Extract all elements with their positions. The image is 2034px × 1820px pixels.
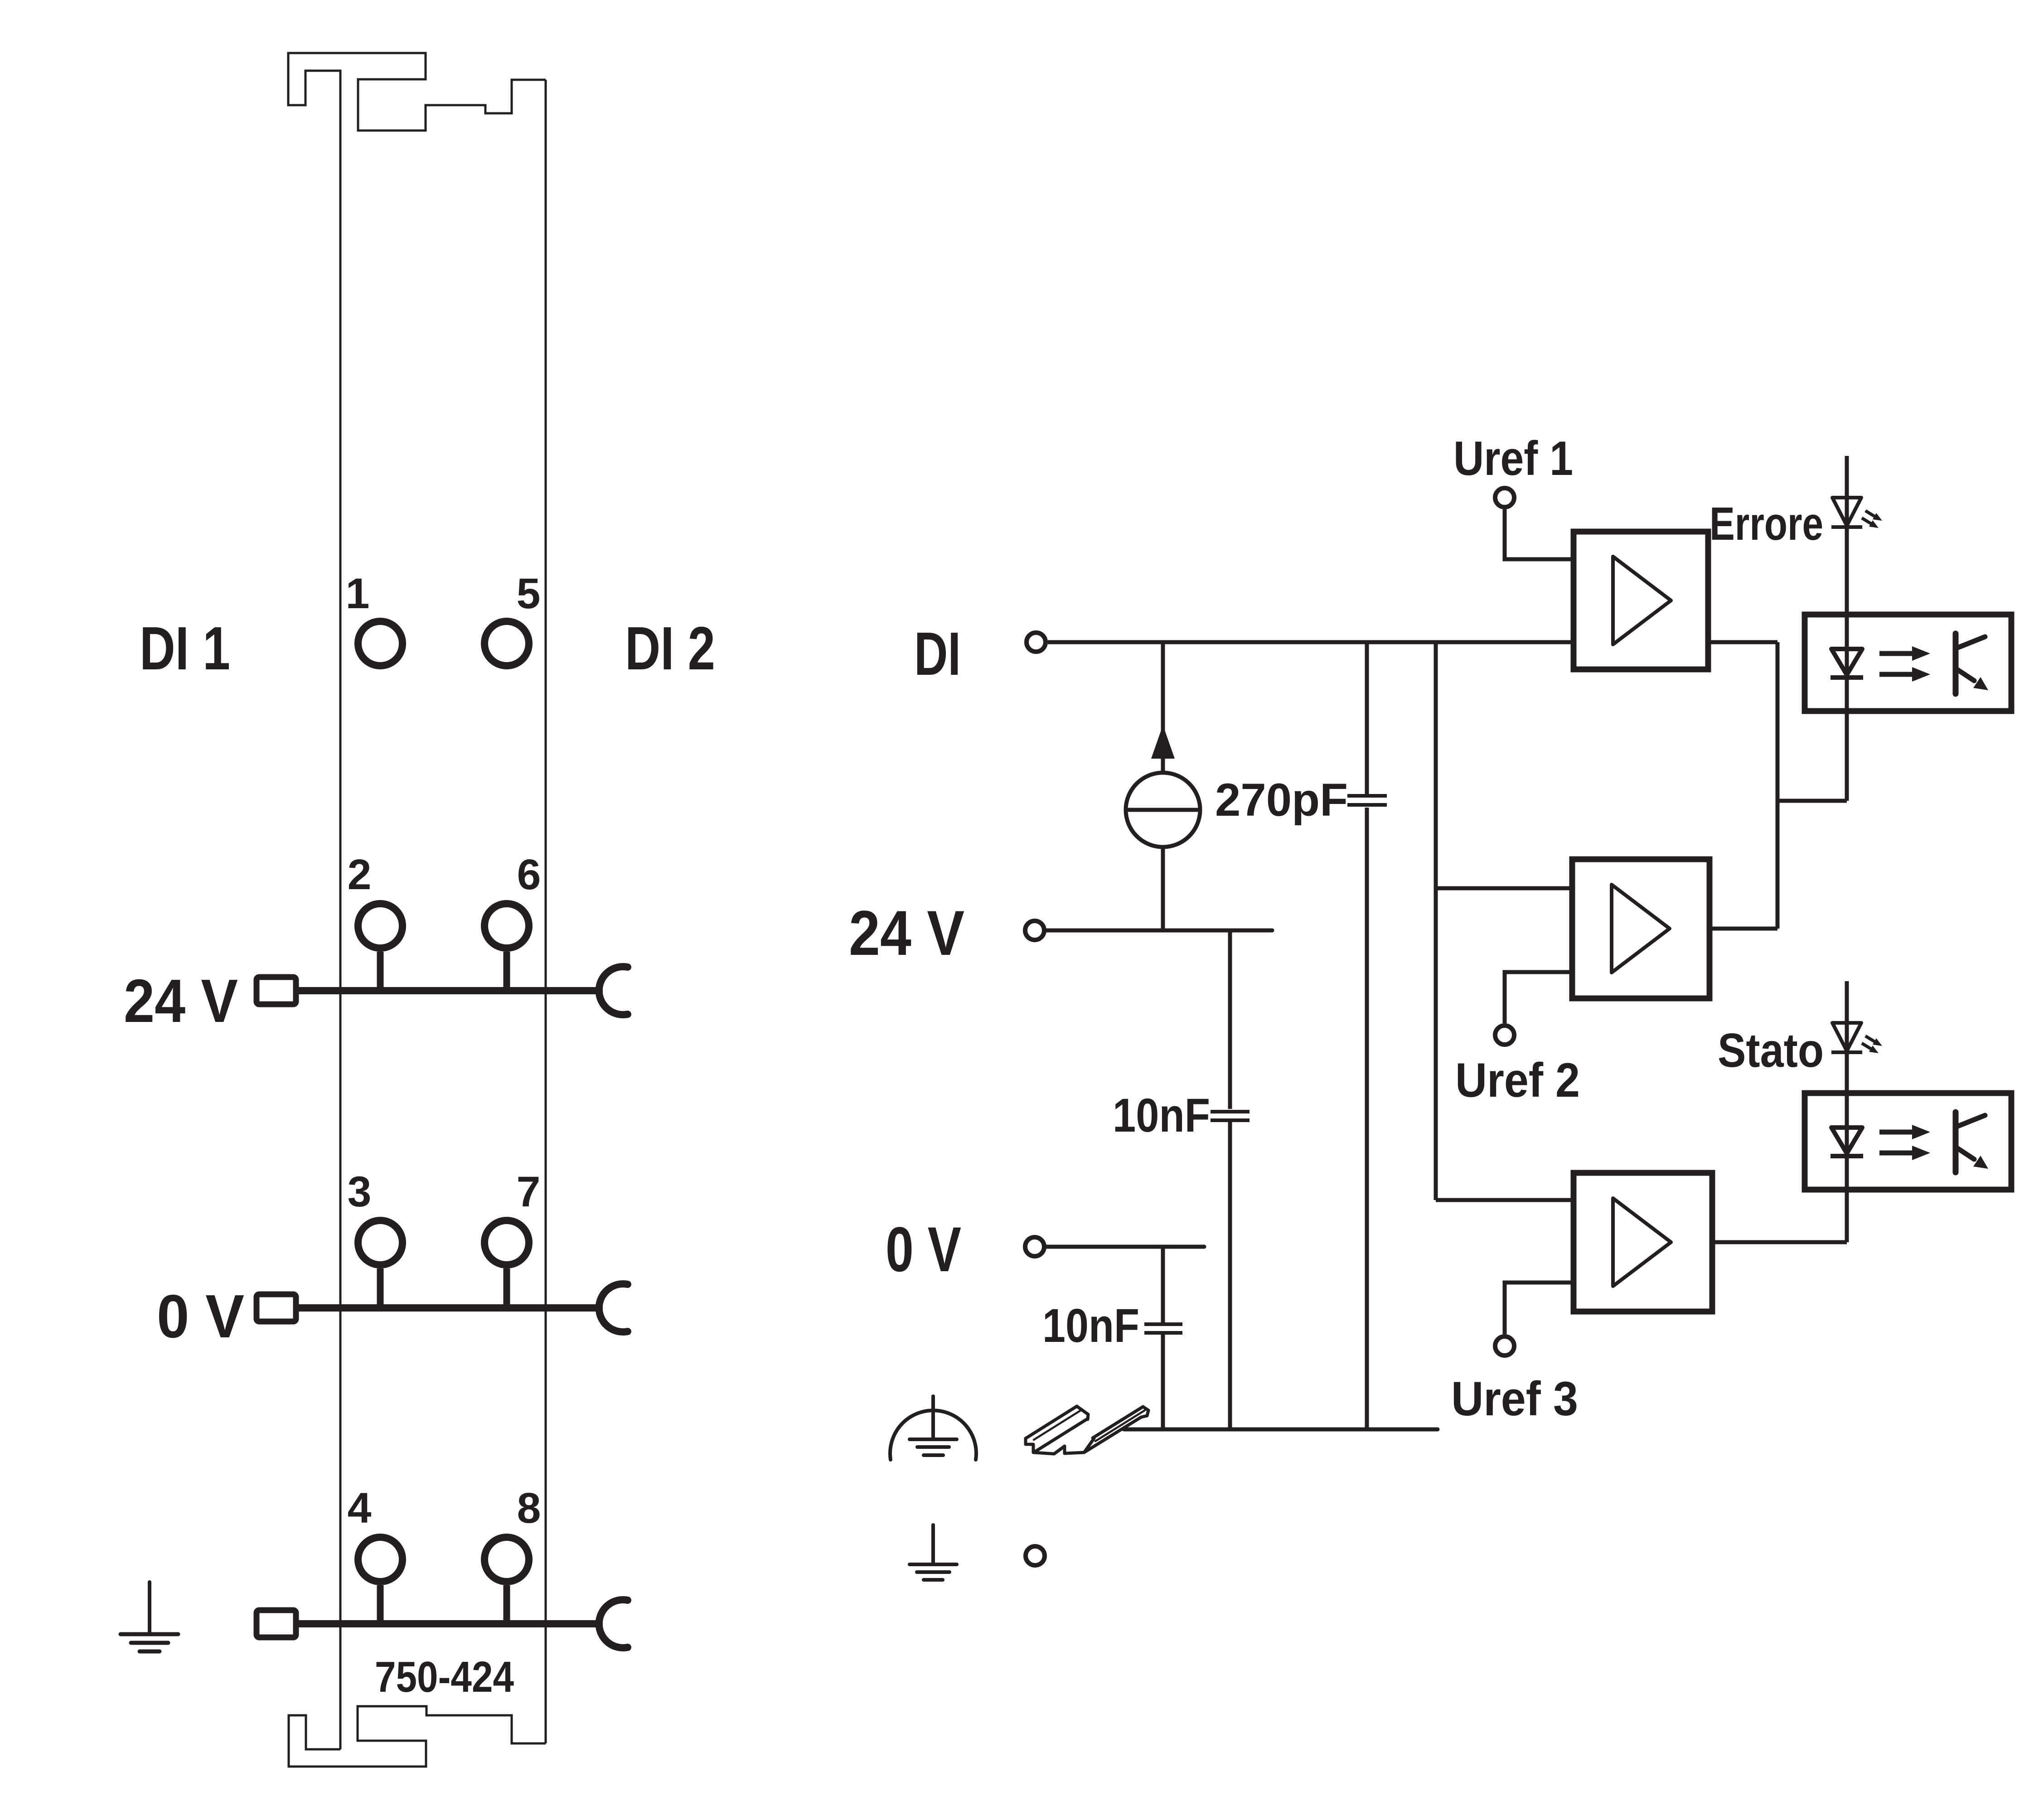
svg-text:1: 1 [346, 570, 370, 618]
terminal stem wire [377, 952, 384, 987]
Uref3 terminal circle [1495, 1336, 1514, 1355]
10nF cap2 wire lower [1161, 1335, 1165, 1429]
svg-text:5: 5 [517, 570, 541, 618]
DIN rail symbol [1026, 1406, 1148, 1454]
svg-text:Errore: Errore [1710, 498, 1823, 550]
24V bus square terminal [257, 977, 296, 1004]
svg-text:DI 2: DI 2 [625, 614, 715, 682]
svg-text:10nF: 10nF [1042, 1299, 1139, 1352]
op-amp U2 triangle [1612, 885, 1670, 973]
svg-text:10nF: 10nF [1113, 1089, 1210, 1142]
DI terminal circle [1027, 633, 1046, 652]
svg-text:0 V: 0 V [157, 1282, 244, 1350]
module left edge [339, 71, 342, 1749]
capacitor 270pF plates [1347, 794, 1387, 798]
ground bus C contact [599, 1600, 628, 1648]
svg-text:4: 4 [348, 1484, 372, 1532]
terminal 1 circle [358, 621, 402, 666]
terminal 2 circle [358, 904, 402, 948]
U2 output wire [1710, 927, 1777, 931]
svg-text:3: 3 [348, 1168, 372, 1216]
optocoupler OK2 box [1805, 1093, 2011, 1190]
0V bus C contact [599, 1284, 628, 1332]
optocoupler OK2 light arrows [1879, 1125, 1930, 1139]
svg-text:7: 7 [517, 1168, 541, 1216]
terminal 7 circle [484, 1220, 529, 1265]
svg-text:0 V: 0 V [886, 1214, 961, 1285]
wire to amp U2 input [1436, 886, 1572, 891]
terminal stem wire [504, 1268, 510, 1305]
svg-text:270pF: 270pF [1215, 774, 1348, 826]
24V rail wire [1046, 929, 1272, 933]
10nF cap1 wire upper [1228, 930, 1232, 1109]
0V bus square terminal [257, 1294, 296, 1321]
terminal stem wire [504, 952, 510, 987]
svg-text:24 V: 24 V [124, 967, 238, 1035]
svg-text:6: 6 [517, 851, 541, 899]
Uref2 terminal circle [1495, 1026, 1514, 1045]
svg-text:750-424: 750-424 [375, 1653, 514, 1701]
optocoupler OK2 phototransistor [1956, 1112, 1985, 1172]
24V terminal circle [1025, 921, 1044, 940]
svg-text:Uref 1: Uref 1 [1453, 431, 1573, 485]
Errore LED anode wire [1845, 456, 1849, 801]
ground bus wire [299, 1620, 603, 1627]
Uref3 wire [1505, 1283, 1574, 1334]
0V terminal circle [1025, 1237, 1044, 1256]
terminal 8 circle [484, 1537, 529, 1582]
ground bus square terminal [257, 1610, 296, 1637]
terminal stem wire [377, 1268, 384, 1305]
24V bus wire [299, 987, 603, 994]
current source chord [1126, 808, 1200, 812]
op-amp U1 box [1574, 532, 1708, 669]
svg-text:Stato: Stato [1718, 1024, 1824, 1077]
svg-text:8: 8 [517, 1484, 541, 1532]
DI rail wire [1048, 640, 1574, 644]
op-amp U3 box [1574, 1173, 1712, 1312]
U1 output wire [1708, 640, 1777, 644]
capacitor 10nF plates 1 [1211, 1110, 1249, 1113]
optocoupler OK1 light arrows [1879, 646, 1930, 661]
svg-text:2: 2 [348, 851, 372, 899]
terminal 3 circle [358, 1220, 402, 1265]
0V rail wire [1046, 1245, 1204, 1249]
current source arrow [1151, 725, 1175, 759]
terminal 6 circle [484, 904, 529, 948]
270pF wire lower [1365, 808, 1369, 1429]
functional earth symbol [890, 1396, 976, 1460]
capacitor 10nF plates 2 [1144, 1322, 1182, 1326]
module ground symbol [121, 1582, 178, 1651]
Uref2 wire [1505, 972, 1572, 1023]
optocoupler OK1 phototransistor [1956, 634, 1985, 694]
terminal 4 circle [358, 1537, 402, 1582]
op-amp U3 triangle [1613, 1198, 1671, 1286]
Uref1 wire [1505, 509, 1574, 559]
module right edge [545, 80, 547, 1743]
LED Stato [1831, 1023, 1862, 1052]
optocoupler OK1 internal LED [1831, 649, 1863, 678]
wire to opto OK1 [1777, 799, 1847, 803]
svg-text:DI 1: DI 1 [140, 614, 230, 682]
current source circle [1126, 773, 1200, 847]
op-amp U1 triangle [1613, 557, 1671, 644]
op-amp U2 box [1572, 859, 1710, 998]
current source wire lower [1161, 847, 1165, 930]
module outline top [288, 53, 546, 131]
earth terminal circle [1026, 1546, 1045, 1565]
current source wire upper [1161, 642, 1165, 773]
U3 output wire [1712, 1240, 1847, 1244]
270pF wire upper [1365, 642, 1369, 794]
10nF cap2 wire upper [1161, 1247, 1165, 1322]
svg-text:Uref 3: Uref 3 [1451, 1371, 1578, 1426]
LED Errore [1831, 498, 1862, 527]
terminal stem wire [377, 1585, 384, 1621]
wire to amp U3 input [1436, 1198, 1574, 1202]
10nF cap1 wire lower [1228, 1122, 1232, 1429]
svg-text:Uref 2: Uref 2 [1455, 1053, 1580, 1107]
24V bus C contact [599, 967, 628, 1015]
svg-text:24 V: 24 V [849, 897, 964, 968]
Uref1 terminal circle [1495, 488, 1514, 507]
terminal stem wire [504, 1585, 510, 1621]
Stato LED anode wire [1845, 981, 1849, 1242]
earth ground symbol [910, 1525, 957, 1580]
0V bus wire [299, 1304, 603, 1312]
terminal 5 circle [484, 621, 529, 666]
output bus vertical wire [1776, 642, 1780, 929]
amp feed vertical wire [1434, 642, 1438, 1200]
shield rail wire [1124, 1428, 1438, 1432]
module outline bottom [289, 1706, 546, 1767]
optocoupler OK1 box [1805, 615, 2011, 711]
optocoupler OK2 internal LED [1831, 1128, 1863, 1156]
svg-text:DI: DI [914, 620, 961, 688]
